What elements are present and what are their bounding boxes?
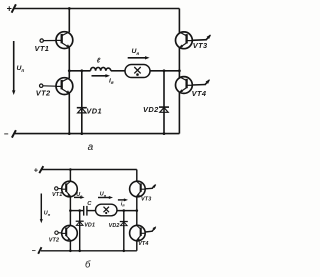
svg-text:VT4: VT4: [138, 241, 148, 247]
svg-text:VD2: VD2: [143, 105, 159, 114]
svg-text:Uя: Uя: [100, 192, 107, 199]
svg-text:VT1: VT1: [35, 44, 50, 53]
svg-text:VT2: VT2: [36, 88, 51, 97]
svg-text:ℓ: ℓ: [96, 58, 101, 65]
svg-text:+: +: [7, 3, 12, 13]
svg-text:Uп: Uп: [44, 210, 51, 217]
svg-text:+: +: [34, 165, 39, 174]
svg-text:VD1: VD1: [86, 106, 102, 115]
svg-text:VT3: VT3: [141, 197, 151, 203]
svg-text:VD1: VD1: [84, 223, 95, 229]
svg-text:−: −: [32, 248, 36, 255]
svg-text:VD2: VD2: [109, 223, 120, 229]
svg-text:iя: iя: [109, 78, 114, 86]
svg-text:VT2: VT2: [49, 237, 59, 243]
svg-text:Uя: Uя: [132, 48, 140, 56]
svg-text:C: C: [87, 201, 92, 207]
svg-text:VT3: VT3: [193, 41, 208, 50]
svg-text:Uc: Uc: [76, 192, 83, 199]
svg-text:VT4: VT4: [192, 89, 207, 98]
svg-text:б: б: [85, 259, 91, 270]
svg-text:VT1: VT1: [52, 192, 62, 198]
svg-text:Uп: Uп: [17, 65, 25, 73]
svg-text:−: −: [4, 130, 9, 139]
svg-text:а: а: [88, 142, 94, 153]
svg-text:iя: iя: [121, 201, 126, 207]
